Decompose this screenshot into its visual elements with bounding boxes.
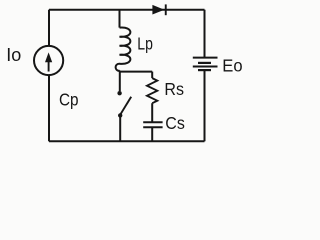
wire switch bottom (119, 116, 121, 142)
svg-text:Lp: Lp (137, 34, 153, 54)
battery Eo long plate 1 (193, 57, 218, 59)
svg-text:Cs: Cs (165, 113, 185, 133)
svg-text:Rs: Rs (164, 79, 184, 99)
svg-text:Io: Io (6, 45, 21, 65)
wire left upper (48, 10, 50, 46)
switch terminal dot bottom (118, 113, 122, 117)
wire top (49, 9, 205, 11)
wire left lower (48, 75, 50, 141)
diode D cathode bar (165, 4, 167, 15)
capacitor Cs bottom plate (143, 126, 162, 128)
wire right lower (from battery) (204, 70, 206, 141)
svg-text:Eo: Eo (222, 55, 242, 76)
current source arrow shaft (48, 59, 50, 72)
wire Rs top stub (151, 72, 153, 79)
wire Lp branch top stub (119, 10, 121, 28)
switch terminal dot top (117, 91, 121, 95)
svg-text:Cp: Cp (59, 89, 79, 109)
capacitor Cs top plate (143, 121, 162, 123)
battery Eo long plate 2 (193, 66, 218, 68)
current source Io circle (34, 46, 63, 75)
switch S lever (120, 97, 131, 115)
battery Eo short plate 2 (198, 69, 211, 71)
diode D triangle (152, 5, 164, 15)
battery Eo short plate 1 (198, 62, 211, 64)
current source arrowhead (45, 52, 52, 62)
wire Rs to Cs stub (151, 103, 153, 122)
inductor Lp coil (116, 27, 131, 70)
wire right upper (to battery) (204, 10, 206, 58)
wire Lp bottom to node (119, 71, 121, 92)
resistor Rs zigzag (147, 78, 157, 103)
wire bottom (49, 140, 205, 142)
wire Cs bottom (151, 127, 153, 141)
wire node to Rs branch (horizontal) (120, 71, 152, 73)
